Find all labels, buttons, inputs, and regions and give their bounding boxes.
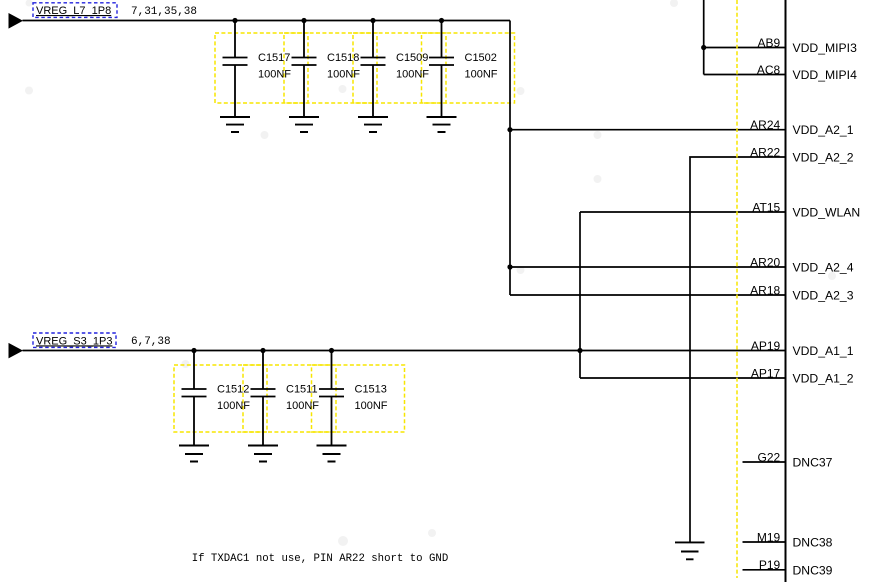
capacitor C1511 highlight box <box>243 365 336 432</box>
pin AP19 number <box>751 339 781 353</box>
pin AR18 number <box>750 283 780 297</box>
op-amp U1 IC selection highlight edge <box>736 0 738 578</box>
pin P19 number <box>759 558 781 572</box>
pin AP17 name VDD_A1_2 <box>793 372 854 386</box>
svg-text:DNC39: DNC39 <box>793 563 833 577</box>
wire AT15 to AP17 vertical branch <box>579 212 581 378</box>
wire rail drop to AR24/AR20/AR18 <box>509 21 511 296</box>
svg-text:AP19: AP19 <box>751 339 781 353</box>
ground of C1511 <box>248 446 278 462</box>
capacitor C1502 highlight box <box>422 33 515 103</box>
svg-text:P19: P19 <box>759 558 781 572</box>
wire to pin AP17 <box>580 377 786 379</box>
svg-text:DNC37: DNC37 <box>793 456 833 470</box>
ground of AR22 <box>675 542 705 559</box>
svg-text:C1518: C1518 <box>327 52 359 64</box>
wire to pin AR24 <box>510 129 786 131</box>
capacitor C1509 <box>361 21 430 117</box>
svg-text:VREG_S3_1P3: VREG_S3_1P3 <box>36 335 112 347</box>
op-amp U1 IC body edge <box>785 0 787 582</box>
pin AB9 number <box>758 36 781 50</box>
pin AT15 number <box>752 200 780 214</box>
svg-text:AR20: AR20 <box>750 255 780 269</box>
svg-text:AR18: AR18 <box>750 283 780 297</box>
capacitor C1509 highlight box <box>353 33 446 103</box>
pin G22 number <box>758 450 781 464</box>
capacitor C1513 <box>319 351 388 445</box>
pin AR24 name VDD_A2_1 <box>793 123 854 137</box>
capacitor C1518 highlight box <box>284 33 377 103</box>
ground of C1513 <box>317 446 347 462</box>
wire to pin AT15 <box>580 211 786 213</box>
svg-text:100NF: 100NF <box>355 400 388 412</box>
svg-text:VDD_MIPI4: VDD_MIPI4 <box>793 68 858 82</box>
svg-text:VDD_A2_1: VDD_A2_1 <box>793 123 854 137</box>
pin G22 stub <box>743 461 786 463</box>
svg-text:AP17: AP17 <box>751 366 781 380</box>
pin AR18 name VDD_A2_3 <box>793 289 854 303</box>
ground of C1512 <box>179 446 209 462</box>
junction rail-C1509 <box>370 18 375 23</box>
svg-text:C1502: C1502 <box>465 52 497 64</box>
capacitor C1512 <box>182 351 251 445</box>
junction rail-C1511 <box>260 348 265 353</box>
capacitor C1511 <box>251 351 320 445</box>
svg-text:100NF: 100NF <box>327 69 360 81</box>
svg-text:DNC38: DNC38 <box>793 536 833 550</box>
pin AR20 name VDD_A2_4 <box>793 261 854 275</box>
svg-text:G22: G22 <box>758 450 781 464</box>
junction rail-C1517 <box>232 18 237 23</box>
svg-text:C1511: C1511 <box>286 384 318 396</box>
junction rail-C1518 <box>301 18 306 23</box>
wire to pin AR20 <box>510 266 786 268</box>
pin P19 name DNC39 <box>793 563 833 577</box>
svg-text:C1512: C1512 <box>217 384 249 396</box>
capacitor C1512 highlight box <box>174 365 267 432</box>
svg-text:7,31,35,38: 7,31,35,38 <box>131 6 197 18</box>
node VREG_S3_1P3 sheet refs 6,7,38 <box>131 336 171 348</box>
svg-text:C1517: C1517 <box>258 52 290 64</box>
wire off-sheet drop to AB9/AC8 <box>703 0 705 75</box>
pin M19 number <box>757 530 781 544</box>
svg-text:C1513: C1513 <box>355 384 387 396</box>
ground of C1502 <box>427 117 457 132</box>
wire VREG_S3_1P3 rail to pin AP19 <box>23 350 786 352</box>
pin AP17 number <box>751 366 781 380</box>
pin AB9 name VDD_MIPI3 <box>793 41 858 55</box>
capacitor C1513 highlight box <box>312 365 405 432</box>
svg-text:100NF: 100NF <box>258 69 291 81</box>
ground of C1509 <box>358 117 388 132</box>
svg-text:100NF: 100NF <box>286 400 319 412</box>
node VREG_L7_1P8 input arrow <box>9 13 24 29</box>
node VREG_S3_1P3 label box <box>33 333 116 347</box>
wire to pin AB9 <box>704 47 786 49</box>
pin AC8 name VDD_MIPI4 <box>793 68 858 82</box>
svg-text:AB9: AB9 <box>758 36 781 50</box>
capacitor C1517 highlight box <box>215 33 308 103</box>
svg-text:VDD_A2_3: VDD_A2_3 <box>793 289 854 303</box>
wire VREG_L7_1P8 rail <box>23 20 511 22</box>
pin AR24 number <box>750 118 780 132</box>
pin AR22 name VDD_A2_2 <box>793 151 854 165</box>
note TXDAC1 <box>192 553 449 565</box>
pin M19 stub <box>743 541 786 543</box>
svg-text:100NF: 100NF <box>465 69 498 81</box>
svg-text:AR22: AR22 <box>750 145 780 159</box>
ground of C1518 <box>289 117 319 132</box>
svg-text:C1509: C1509 <box>396 52 428 64</box>
pin M19 name DNC38 <box>793 536 833 550</box>
wire pin AR22 to ground <box>690 157 786 542</box>
svg-text:VDD_MIPI3: VDD_MIPI3 <box>793 41 858 55</box>
junction rail-C1513 <box>329 348 334 353</box>
junction AR24 branch <box>507 127 512 132</box>
capacitor C1502 <box>429 21 498 117</box>
svg-text:100NF: 100NF <box>396 69 429 81</box>
node VREG_L7_1P8 label box <box>33 3 117 18</box>
svg-text:VDD_A1_2: VDD_A1_2 <box>793 372 854 386</box>
wire to pin AR18 <box>510 294 786 296</box>
node VREG_S3_1P3 input arrow <box>9 343 24 359</box>
svg-text:VDD_WLAN: VDD_WLAN <box>793 206 861 220</box>
svg-text:VDD_A2_4: VDD_A2_4 <box>793 261 854 275</box>
svg-text:VDD_A2_2: VDD_A2_2 <box>793 151 854 165</box>
pin AR20 number <box>750 255 780 269</box>
svg-text:6,7,38: 6,7,38 <box>131 336 171 348</box>
svg-text:If TXDAC1 not use, PIN AR22 sh: If TXDAC1 not use, PIN AR22 short to GND <box>192 553 449 565</box>
svg-text:M19: M19 <box>757 530 781 544</box>
junction rail-C1502 <box>439 18 444 23</box>
wire to pin AC8 <box>704 74 786 76</box>
pin P19 stub <box>743 569 786 571</box>
node VREG_L7_1P8 sheet refs 7,31,35,38 <box>131 6 197 18</box>
capacitor C1518 <box>292 21 361 117</box>
pin AC8 number <box>757 63 781 77</box>
svg-text:AR24: AR24 <box>750 118 780 132</box>
svg-text:VDD_A1_1: VDD_A1_1 <box>793 344 854 358</box>
svg-text:AT15: AT15 <box>752 200 780 214</box>
junction rail-AT15/AP17 branch <box>577 348 582 353</box>
junction AB9 branch <box>701 45 706 50</box>
ground of C1517 <box>220 117 250 132</box>
junction AR20 branch <box>507 264 512 269</box>
pin G22 name DNC37 <box>793 456 833 470</box>
svg-text:100NF: 100NF <box>217 400 250 412</box>
pin AT15 name VDD_WLAN <box>793 206 861 220</box>
svg-text:AC8: AC8 <box>757 63 781 77</box>
svg-text:VREG_L7_1P8: VREG_L7_1P8 <box>36 5 111 17</box>
junction rail-C1512 <box>191 348 196 353</box>
capacitor C1517 <box>223 21 292 117</box>
pin AP19 name VDD_A1_1 <box>793 344 854 358</box>
pin AR22 number <box>750 145 780 159</box>
